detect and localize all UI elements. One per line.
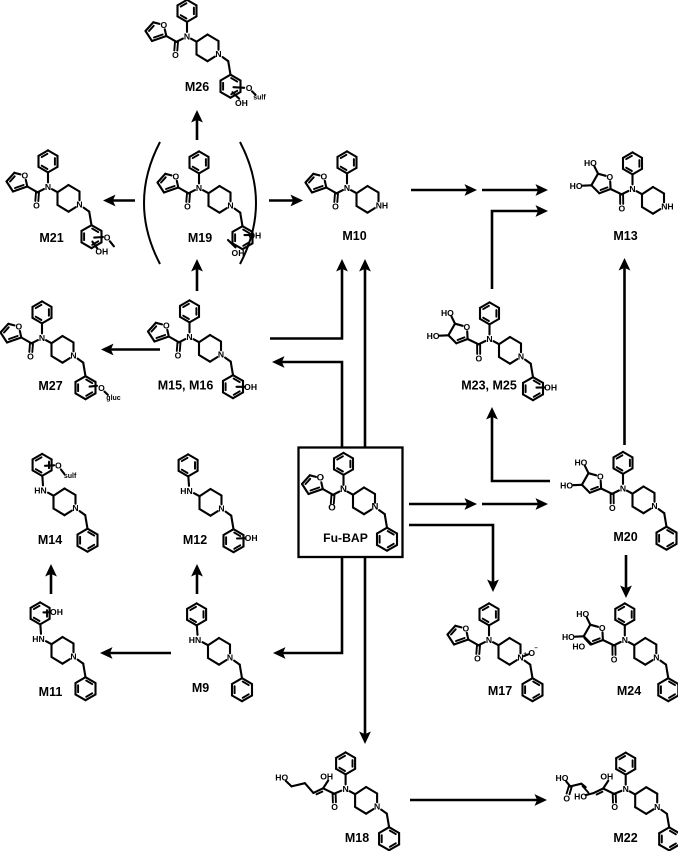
svg-text:N: N xyxy=(651,501,657,511)
svg-text:N: N xyxy=(374,802,380,812)
svg-text:N: N xyxy=(344,183,350,193)
label M19 xyxy=(188,231,212,245)
svg-text:HO: HO xyxy=(275,772,288,782)
svg-text:HO: HO xyxy=(560,481,573,491)
svg-text:OH: OH xyxy=(50,607,63,617)
svg-text:O: O xyxy=(611,802,618,812)
svg-text:O: O xyxy=(163,321,170,331)
svg-text:O: O xyxy=(184,202,191,212)
svg-text:HN: HN xyxy=(32,634,44,644)
svg-text:N: N xyxy=(227,201,233,211)
svg-text:OH: OH xyxy=(95,247,108,257)
svg-text:M18: M18 xyxy=(345,831,369,845)
arrow M15/M16 to M19 xyxy=(191,259,203,291)
svg-text:OH: OH xyxy=(320,771,333,781)
arrow Fu-BAP to M9 xyxy=(273,557,342,659)
structure M21: scaffold with benzyl O-CH3 and OH xyxy=(7,150,114,256)
svg-text:HO: HO xyxy=(562,632,575,642)
structure M13: dihydrodiol-furanoyl-phenyl-piperidine (NH) xyxy=(570,152,674,213)
arrow Fu-BAP to M18 xyxy=(359,557,371,744)
label M15, M16 xyxy=(158,379,214,393)
structure M17: scaffold piperidine N-oxide with benzyl xyxy=(448,603,543,701)
svg-text:M26: M26 xyxy=(185,80,209,94)
arrow M15/M16 to M10 xyxy=(270,259,348,339)
structure Fu-BAP: furanoyl-phenyl-benzylpiperidine parent xyxy=(302,453,397,551)
svg-text:–: – xyxy=(534,646,538,652)
svg-text:N: N xyxy=(45,182,51,192)
svg-text:O: O xyxy=(320,172,327,182)
label M23, M25 xyxy=(461,379,517,393)
svg-text:O: O xyxy=(607,172,614,182)
svg-text:N: N xyxy=(70,652,76,662)
svg-text:OH: OH xyxy=(600,772,613,782)
label M17 xyxy=(488,684,512,698)
svg-text:N: N xyxy=(629,184,635,194)
svg-text:O: O xyxy=(172,172,179,182)
svg-text:N: N xyxy=(72,503,78,513)
arrow Fu-BAP to M20 step 1 xyxy=(409,498,477,510)
svg-text:O: O xyxy=(27,352,34,362)
svg-text:O: O xyxy=(328,503,336,514)
svg-text:N: N xyxy=(342,784,348,794)
svg-text:HO: HO xyxy=(441,308,454,318)
svg-text:HN: HN xyxy=(180,486,192,496)
svg-text:O: O xyxy=(160,20,167,30)
svg-text:gluc: gluc xyxy=(106,395,120,402)
arrow M15/M16 to M27 xyxy=(101,344,160,356)
label M11 xyxy=(39,685,63,699)
svg-text:HO: HO xyxy=(576,609,589,619)
svg-text:N: N xyxy=(654,802,660,812)
arrow M9 to M12 xyxy=(191,564,203,594)
arrow Fu-BAP to M17 xyxy=(409,525,499,592)
svg-text:O: O xyxy=(474,654,481,664)
svg-text:sulf: sulf xyxy=(64,473,77,480)
structure M15/M16: scaffold with hydroxy-benzyl xyxy=(148,300,257,398)
svg-text:N: N xyxy=(196,183,202,193)
svg-text:HO: HO xyxy=(570,181,583,191)
svg-text:M22: M22 xyxy=(613,831,637,845)
arrow M20 to M23/M25 xyxy=(486,407,550,481)
svg-text:HO: HO xyxy=(574,457,587,467)
svg-text:M20: M20 xyxy=(613,530,637,544)
svg-text:N: N xyxy=(486,334,492,344)
arrow M18 to M22 xyxy=(410,794,547,806)
svg-text:M13: M13 xyxy=(613,229,637,243)
svg-text:N: N xyxy=(218,504,224,514)
structure M10: furanoyl-phenyl-piperidine (NH) xyxy=(306,151,389,212)
svg-text:M11: M11 xyxy=(39,685,63,699)
svg-text:M15, M16: M15, M16 xyxy=(158,379,214,393)
label M10 xyxy=(342,229,366,243)
svg-text:N: N xyxy=(227,653,233,663)
svg-text:O: O xyxy=(175,351,182,361)
svg-text:M17: M17 xyxy=(488,684,512,698)
svg-text:N: N xyxy=(340,484,347,495)
label M26 xyxy=(185,80,209,94)
svg-text:O: O xyxy=(464,322,471,332)
label M9 xyxy=(192,681,209,695)
svg-text:HO: HO xyxy=(572,642,585,652)
svg-text:HN: HN xyxy=(189,635,201,645)
structure M26: furanoyl-phenyl-piperidine-benzyl with OH and O-sulf xyxy=(146,0,267,108)
arrow M20 to M24 xyxy=(620,555,632,598)
svg-text:O: O xyxy=(462,624,469,634)
svg-text:M19: M19 xyxy=(188,231,212,245)
svg-text:NH: NH xyxy=(376,201,388,211)
label M27 xyxy=(38,379,62,393)
svg-text:M23, M25: M23, M25 xyxy=(461,379,517,393)
parenthesis right of M19 xyxy=(240,142,256,264)
svg-text:N: N xyxy=(215,49,221,59)
svg-text:sulf: sulf xyxy=(253,95,266,102)
label M12 xyxy=(183,533,207,547)
box around Fu-BAP parent compound xyxy=(299,448,403,558)
structure M22: carboxylic acid dihydroxy chain amide with benzylpiperidine xyxy=(556,753,678,851)
label M18 xyxy=(345,831,369,845)
svg-text:N: N xyxy=(518,352,524,362)
svg-text:HO: HO xyxy=(574,792,587,802)
svg-text:OH: OH xyxy=(235,98,248,108)
svg-text:O: O xyxy=(475,354,482,364)
label M13 xyxy=(613,229,637,243)
structure M23/M25: dihydrodiol scaffold with hydroxy-benzyl xyxy=(427,302,557,400)
arrow M19 to M26 xyxy=(191,110,203,140)
svg-text:M21: M21 xyxy=(39,231,63,245)
svg-text:O: O xyxy=(332,202,339,212)
svg-text:N: N xyxy=(622,635,628,645)
svg-text:OH: OH xyxy=(245,533,258,543)
svg-text:N: N xyxy=(39,333,45,343)
structure M18: ring-opened hydroxy chain amide with benzylpiperidine xyxy=(275,752,399,850)
svg-text:O: O xyxy=(597,471,604,481)
arrow M9 to M11 xyxy=(100,647,171,659)
svg-text:HN: HN xyxy=(34,486,46,496)
svg-text:HO: HO xyxy=(556,773,569,783)
arrow M10 to M13 step 1 xyxy=(411,184,477,196)
svg-text:O: O xyxy=(331,802,338,812)
svg-text:O: O xyxy=(599,623,606,633)
svg-text:N: N xyxy=(218,350,224,360)
structure M20: dihydrodiol scaffold with benzyl xyxy=(560,452,676,550)
arrow Fu-BAP to M10 xyxy=(359,259,371,448)
svg-text:M10: M10 xyxy=(342,229,366,243)
svg-text:Fu-BAP: Fu-BAP xyxy=(323,531,368,545)
svg-text:O: O xyxy=(611,655,618,665)
arrow M10 to M13 step 2 xyxy=(482,184,548,196)
svg-text:NH: NH xyxy=(661,202,673,212)
structure M12: aniline with hydroxybenzyl-piperidine xyxy=(179,454,258,552)
svg-text:M14: M14 xyxy=(38,533,62,547)
svg-text:N: N xyxy=(623,784,629,794)
structure M9: aniline with benzylpiperidine xyxy=(187,603,252,701)
svg-text:N: N xyxy=(70,351,76,361)
svg-text:N: N xyxy=(372,502,379,513)
svg-text:OH: OH xyxy=(232,248,245,258)
parenthesis left of M19 xyxy=(144,142,160,264)
arrow Fu-BAP to M20 step 2 xyxy=(482,498,548,510)
svg-text:N: N xyxy=(186,332,192,342)
arrow Fu-BAP to M15/M16 xyxy=(272,356,342,448)
label M20 xyxy=(613,530,637,544)
svg-text:OH: OH xyxy=(544,383,557,393)
arrow M11 to M14 xyxy=(45,564,57,594)
svg-text:O: O xyxy=(33,201,40,211)
label Fu-BAP xyxy=(323,531,368,545)
svg-text:O: O xyxy=(618,204,625,214)
arrow M20 to M13 xyxy=(619,258,631,445)
svg-text:O: O xyxy=(317,473,325,484)
structure M14: aniline O-sulfate with benzylpiperidine xyxy=(33,454,98,552)
svg-text:O: O xyxy=(15,322,22,332)
svg-text:N: N xyxy=(653,653,659,663)
svg-text:HO: HO xyxy=(584,158,597,168)
svg-text:M27: M27 xyxy=(38,379,62,393)
svg-text:M9: M9 xyxy=(192,681,209,695)
svg-text:HO: HO xyxy=(427,331,440,341)
svg-text:O: O xyxy=(609,503,616,513)
svg-text:OH: OH xyxy=(244,382,257,392)
svg-text:M12: M12 xyxy=(183,533,207,547)
structure M27: scaffold with benzyl O-glucuronide xyxy=(1,301,121,402)
svg-text:O: O xyxy=(21,171,28,181)
label M24 xyxy=(617,684,641,698)
arrow M19 to M21 xyxy=(103,195,135,207)
structure M24: trihydroxy scaffold with benzyl xyxy=(562,603,678,701)
structure M19: scaffold with dihydroxy-benzyl, in parentheses xyxy=(158,151,262,258)
arrow M19 to M10 xyxy=(269,195,303,207)
svg-text:N: N xyxy=(620,484,626,494)
label M21 xyxy=(39,231,63,245)
svg-text:O: O xyxy=(563,793,570,803)
svg-text:N: N xyxy=(76,200,82,210)
structure M11: hydroxy-aniline with benzylpiperidine xyxy=(31,602,96,700)
svg-text:N: N xyxy=(486,635,492,645)
svg-text:N: N xyxy=(184,32,190,42)
arrow M23/M25 to M13 xyxy=(492,205,548,289)
label M22 xyxy=(613,831,637,845)
svg-text:O: O xyxy=(172,50,179,60)
label M14 xyxy=(38,533,62,547)
svg-text:M24: M24 xyxy=(617,684,641,698)
